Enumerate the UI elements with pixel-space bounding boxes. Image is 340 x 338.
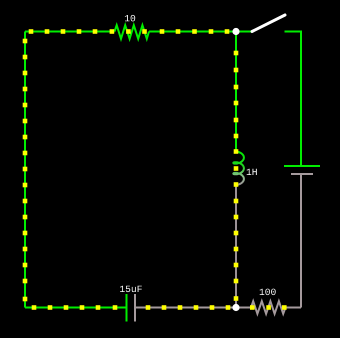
wire battery negative lead down [300,175,302,308]
wire top horizontal (right of R1 to node A) [149,31,236,33]
label 10 [125,15,135,22]
resistor R2 100 ohm zigzag [251,301,286,314]
battery V1 positive plate [284,165,320,167]
label 100 [260,289,276,296]
capacitor C1 left plate [126,294,128,322]
current dots left column [23,39,28,302]
wire bottom-right (corner to R2) [286,307,302,309]
wire top-left horizontal (left of R1) [25,31,115,33]
inductor L1 coil [233,152,244,186]
current dots inductor [234,149,239,187]
label 1H [247,169,257,175]
current dots bottom gray wire [146,305,231,310]
wire bottom-left (capacitor to corner) [25,307,126,309]
wire top-right to battery [285,32,302,166]
battery V1 negative plate [291,173,313,175]
wire left column [24,32,26,308]
current dots middle column lower [234,199,239,301]
wire bottom gray (node B to capacitor) [136,307,236,309]
switch S1 lever (open) [252,15,285,32]
wire R2 to node B [236,307,251,309]
node B junction dot [232,304,239,311]
current dots top wire [29,29,230,34]
wire switch lead [236,31,252,33]
wire middle column lower (L1 to node B) [235,185,237,308]
capacitor C1 right plate [134,294,136,322]
current dots bottom-left wire [32,305,118,310]
wire middle column upper (node A to L1) [235,32,237,152]
node A junction dot [232,28,239,35]
current dots R2 branch [250,305,287,310]
current dots middle column upper [234,51,239,139]
resistor R1 10 ohm zigzag [115,25,150,39]
label 15uF [120,286,142,292]
